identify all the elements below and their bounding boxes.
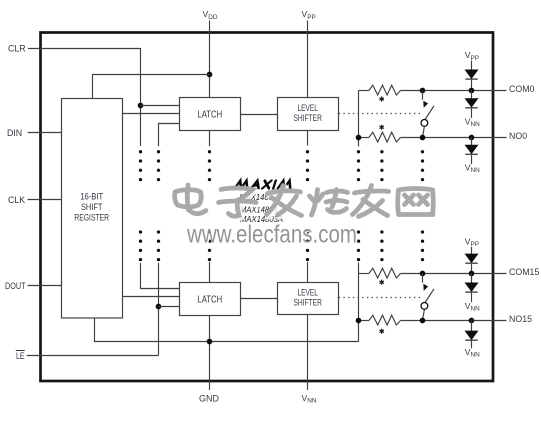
- wire switch control (dotted) S2: [339, 297, 421, 299]
- wire GND bus: [95, 318, 359, 342]
- wire bias rail COM0: [358, 91, 360, 147]
- wire COM15 line: [359, 273, 369, 275]
- wire CLR: [28, 49, 141, 147]
- node COM15 clamp junction: [469, 271, 475, 277]
- wire DOUT: [28, 285, 62, 287]
- diode D1: [465, 61, 477, 91]
- node COM0 clamp junction: [469, 88, 475, 94]
- node NO15 bias junction: [356, 318, 362, 324]
- node NO15 switch: [420, 318, 426, 324]
- wire latch U2 supply stub: [209, 131, 211, 147]
- switch S2: [421, 274, 434, 321]
- svg-text:NO0: NO0: [509, 131, 527, 141]
- node GND junction: [207, 339, 213, 345]
- node latch enable junction: [156, 304, 162, 310]
- svg-text:16-BIT: 16-BIT: [80, 192, 104, 202]
- wire shift register to latch U2: [123, 113, 180, 115]
- wire CLR to latch: [141, 105, 180, 107]
- level shifter U3: [278, 98, 339, 131]
- wire VDD to shift register: [93, 75, 210, 99]
- wire latch enable rail: [158, 263, 160, 356]
- wire level shifter U5 supply stub: [307, 262, 309, 283]
- diode D4: [465, 247, 477, 274]
- label R1 value asterisk: [379, 96, 384, 101]
- node COM0 switch: [420, 88, 426, 94]
- diode D5: [465, 274, 477, 303]
- svg-text:COM15: COM15: [509, 267, 539, 277]
- svg-text:GND: GND: [199, 394, 220, 404]
- resistor R2: [369, 132, 401, 142]
- resistor R4: [369, 315, 401, 325]
- node NO0 clamp junction: [469, 135, 475, 141]
- wire CLK: [28, 199, 62, 201]
- wire bias rail COM15: [358, 263, 360, 342]
- wire level shifter U3 supply stub: [307, 131, 309, 146]
- svg-text:SHIFTER: SHIFTER: [294, 113, 322, 123]
- latch U2: [180, 98, 241, 131]
- svg-text:CLK: CLK: [8, 195, 25, 205]
- wire COM0 line: [359, 90, 369, 92]
- level shifter U5: [278, 283, 339, 315]
- wire latch U4 to level shifter U5: [241, 298, 278, 300]
- svg-text:NO15: NO15: [509, 314, 532, 324]
- wire NO0 line: [359, 137, 369, 139]
- wire LE: [27, 355, 159, 357]
- node CLR junction: [138, 103, 144, 109]
- svg-text:LATCH: LATCH: [197, 294, 222, 305]
- diode D3: [465, 138, 477, 165]
- svg-text:DOUT: DOUT: [5, 281, 26, 291]
- svg-text:LE: LE: [16, 351, 25, 361]
- latch U4: [180, 283, 241, 316]
- wire latch enable to latch U4: [159, 306, 180, 308]
- svg-text:LATCH: LATCH: [197, 109, 222, 120]
- svg-text:DIN: DIN: [7, 128, 22, 138]
- svg-text:REGISTER: REGISTER: [74, 213, 109, 223]
- node NO0 bias junction: [356, 135, 362, 141]
- wire shift register to latch U4: [123, 296, 180, 298]
- ellipsis latch-enable rail: [157, 150, 160, 261]
- wire DIN: [28, 132, 62, 134]
- svg-text:LEVEL: LEVEL: [298, 103, 318, 113]
- shift register U1: [62, 99, 123, 319]
- ellipsis bias rail: [357, 150, 360, 261]
- svg-text:COM0: COM0: [509, 84, 535, 94]
- wire VPP: [307, 21, 309, 98]
- node NO0 switch: [420, 135, 426, 141]
- node VDD junction: [207, 72, 213, 78]
- watermark url text: [186, 221, 358, 250]
- wire switch control (dotted) S1: [339, 113, 421, 115]
- label R3 value asterisk: [379, 280, 384, 285]
- svg-text:CLR: CLR: [8, 44, 26, 54]
- wire NO15 line: [359, 320, 369, 322]
- wire latch U4 supply stub: [209, 262, 211, 283]
- label R4 value asterisk: [379, 329, 384, 334]
- ellipsis switch column: [421, 150, 424, 261]
- svg-text:LEVEL: LEVEL: [298, 288, 318, 298]
- wire GND pin: [209, 316, 211, 391]
- watermark chinese characters: [176, 187, 435, 219]
- diode D6: [465, 321, 477, 349]
- node NO15 clamp junction: [469, 318, 475, 324]
- ellipsis supply rail: [208, 150, 211, 261]
- chip outline: [41, 33, 494, 382]
- resistor R3: [369, 268, 401, 278]
- wire latch enable to latch U2: [159, 124, 180, 147]
- wire VDD: [209, 21, 211, 98]
- resistor R1: [369, 85, 401, 95]
- wire latch U2 to level shifter U3: [241, 114, 278, 116]
- svg-text:SHIFT: SHIFT: [81, 202, 103, 212]
- wire VNN pin: [307, 315, 309, 391]
- logo MAXIM: [235, 181, 293, 189]
- ellipsis resistor column: [380, 150, 383, 261]
- ellipsis CLR rail: [139, 150, 142, 261]
- svg-text:SHIFTER: SHIFTER: [294, 298, 322, 308]
- svg-text:www.elecfans.com: www.elecfans.com: [186, 221, 357, 249]
- wire CLR rail to latch U4: [141, 263, 180, 289]
- switch S1: [421, 91, 434, 138]
- diode D2: [465, 91, 477, 118]
- ellipsis level-shifter rail: [306, 150, 309, 261]
- node COM15 switch: [420, 271, 426, 277]
- label R2 value asterisk: [379, 125, 384, 130]
